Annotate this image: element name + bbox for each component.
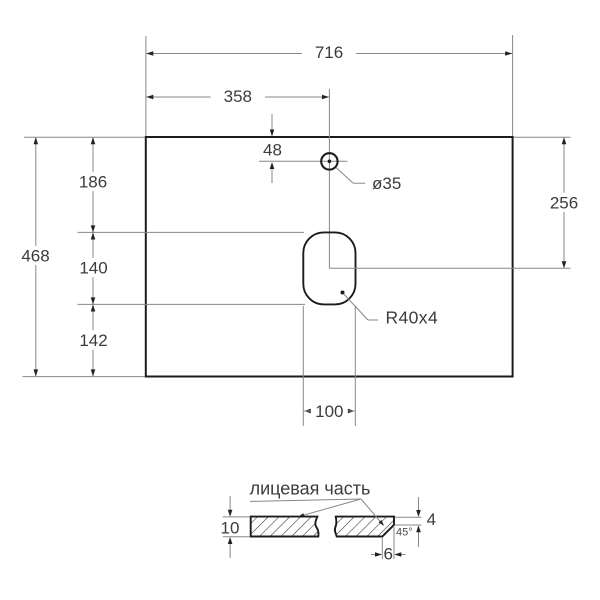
svg-text:45°: 45°	[396, 526, 413, 538]
extension lines chamfer width 6	[381, 538, 383, 559]
svg-text:716: 716	[315, 43, 343, 62]
svg-text:358: 358	[224, 87, 252, 106]
extension lines thickness 10	[223, 516, 250, 518]
extension lines cutout width	[302, 306, 304, 426]
dimension 48	[271, 114, 273, 131]
basin cutout R40x4	[303, 232, 355, 304]
dimension 716	[147, 53, 513, 55]
section left piece	[251, 517, 319, 537]
dimension 468	[35, 138, 37, 376]
svg-text:10: 10	[221, 519, 240, 538]
extension lines chamfer 4	[395, 516, 422, 518]
section right piece with 45deg chamfer	[335, 517, 394, 537]
dimension 256	[563, 138, 565, 268]
extension line oval top tangent	[78, 231, 305, 233]
leader litsevaya chast	[250, 499, 361, 501]
dimension 358	[147, 96, 329, 98]
dimension 6	[371, 554, 376, 556]
faucet hole o35	[321, 153, 337, 169]
svg-text:186: 186	[79, 173, 107, 192]
extension line top-left horizontal (468 datum)	[24, 136, 145, 138]
dimension 4	[418, 497, 420, 511]
extension line bottom-left horizontal	[23, 376, 146, 378]
countertop outline 716x468	[146, 137, 513, 377]
svg-text:лицевая часть: лицевая часть	[250, 479, 371, 499]
svg-text:ø35: ø35	[372, 174, 401, 193]
svg-text:256: 256	[550, 194, 578, 213]
extension line left vertical (716/358 datum)	[145, 36, 147, 136]
leader o35	[336, 168, 353, 184]
svg-text:R40x4: R40x4	[386, 308, 439, 328]
svg-text:6: 6	[383, 545, 392, 564]
extension line oval bottom tangent	[78, 303, 306, 305]
svg-text:100: 100	[315, 402, 343, 421]
hole centerline horizontal	[259, 160, 348, 162]
extension line faucet axis vertical	[328, 89, 330, 268]
basin centerline horizontal (256 datum)	[329, 267, 570, 269]
extension line right vertical (716)	[512, 35, 514, 136]
svg-text:140: 140	[79, 259, 107, 278]
svg-text:468: 468	[21, 247, 49, 266]
svg-text:4: 4	[427, 510, 436, 529]
dimension chain 186/140/142	[92, 138, 94, 376]
extension line top-right horizontal	[514, 136, 571, 138]
dimension 10	[229, 496, 231, 511]
dimension 100	[304, 409, 311, 414]
svg-text:48: 48	[263, 141, 282, 160]
svg-text:142: 142	[79, 331, 107, 350]
leader R40x4	[341, 291, 345, 295]
